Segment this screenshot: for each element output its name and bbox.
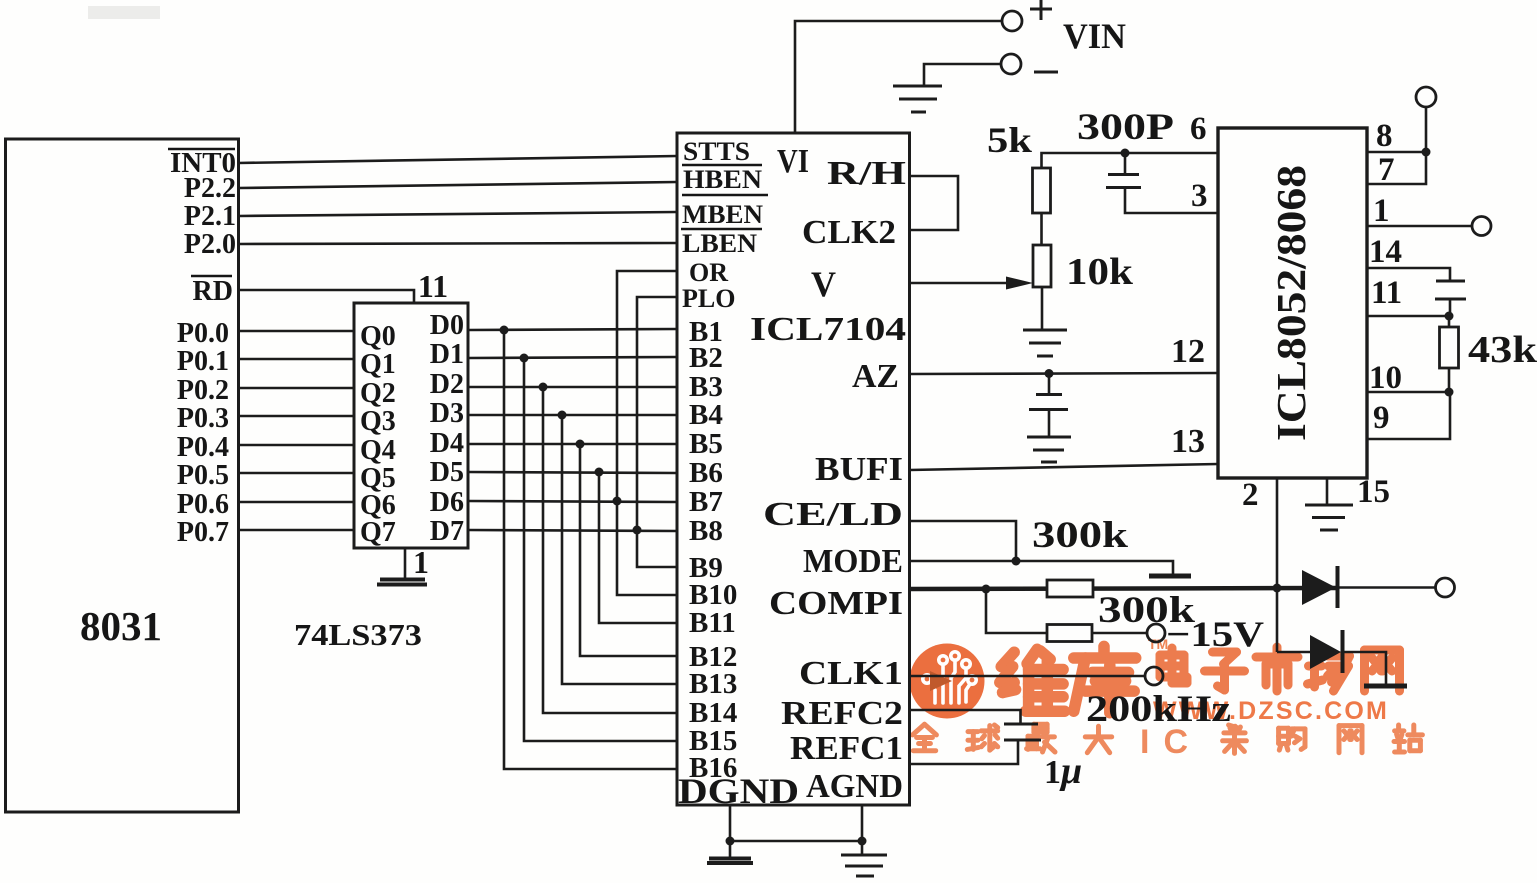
svg-text:RD: RD: [193, 276, 233, 307]
svg-text:D3: D3: [430, 398, 464, 429]
wire D2 to B14: [543, 387, 677, 713]
ground AZ cap: [1027, 436, 1071, 439]
wire CE/LD down to MODE: [910, 521, 1017, 561]
wire V to 10k wiper: [910, 282, 1013, 285]
wire D4 to B12: [580, 444, 677, 656]
svg-text:8031: 8031: [80, 603, 162, 649]
wire junction up to terminal: [1425, 107, 1428, 152]
svg-text:Q1: Q1: [360, 349, 396, 380]
wire COMPI heavy line: [910, 588, 1337, 589]
svg-text:P0.0: P0.0: [177, 318, 229, 349]
wire VIN- to ground: [924, 64, 1001, 85]
wire P2.2 to HBEN: [238, 182, 677, 188]
wire U2 pin9: [1367, 392, 1450, 439]
node D0 junction: [500, 326, 509, 335]
svg-text:13: 13: [1171, 423, 1205, 460]
svg-text:10: 10: [1369, 360, 1402, 396]
svg-text:74LS373: 74LS373: [294, 617, 422, 652]
svg-text:B5: B5: [689, 428, 723, 460]
IC 8031: [6, 139, 239, 812]
svg-text:−15V: −15V: [1166, 614, 1264, 654]
svg-text:Q7: Q7: [360, 517, 396, 548]
wire U2 pin8 to terminal: [1367, 151, 1426, 154]
node D4 junction: [576, 440, 585, 449]
node pin8 junction: [1422, 148, 1431, 157]
terminal pin1: [1472, 217, 1491, 236]
ground bar MODE: [1149, 574, 1191, 579]
wire D2 to B3: [468, 386, 677, 389]
svg-text:D7: D7: [430, 516, 464, 547]
svg-text:STTS: STTS: [683, 137, 750, 166]
svg-text:REFC1: REFC1: [790, 730, 903, 767]
capacitor 300P: [1124, 153, 1127, 174]
wire DGND down: [729, 805, 732, 841]
svg-text:BUFI: BUFI: [815, 451, 903, 488]
node CE/LD MODE junction: [1012, 557, 1021, 566]
node AGND junction: [858, 837, 867, 846]
svg-text:3: 3: [1191, 178, 1208, 214]
svg-text:COMPI: COMPI: [769, 585, 903, 622]
svg-text:B8: B8: [689, 515, 723, 547]
wire D1 to B2: [468, 357, 677, 358]
svg-text:REFC2: REFC2: [781, 695, 903, 732]
wire P0.1: [238, 358, 354, 361]
node AZ cap junction: [1045, 369, 1054, 378]
svg-text:Q0: Q0: [360, 321, 396, 352]
node D2 junction: [539, 383, 548, 392]
watermark slogan row: [913, 724, 937, 750]
svg-text:B13: B13: [689, 668, 737, 700]
wire PLO loop down through D7 to B9: [637, 297, 677, 567]
node pin2 junction on COMPI line: [1273, 584, 1282, 593]
svg-text:Q2: Q2: [360, 378, 396, 409]
watermark characters 电子市场网: [1160, 648, 1187, 683]
wire D2 to bar ground: [1343, 652, 1387, 684]
svg-text:B7: B7: [689, 486, 723, 518]
svg-text:MODE: MODE: [803, 543, 903, 580]
capacitor pin14: [1436, 280, 1465, 283]
svg-text:P0.5: P0.5: [177, 460, 229, 491]
svg-text:P0.3: P0.3: [177, 403, 229, 434]
svg-text:11: 11: [418, 268, 448, 304]
terminal top right: [1416, 87, 1436, 107]
svg-text:V: V: [811, 264, 836, 304]
resistor 300k on COMPI: [1047, 580, 1093, 597]
svg-text:P0.6: P0.6: [177, 489, 229, 520]
wire R/H loop to CLK2: [910, 176, 959, 230]
node D1 junction: [520, 354, 529, 363]
wire RD to 74LS373 pin11: [238, 290, 414, 303]
svg-text:CLK2: CLK2: [802, 214, 896, 251]
svg-text:1: 1: [1373, 193, 1390, 229]
watermark logo arrow: [930, 671, 952, 691]
wire DGND to AGND: [730, 840, 862, 843]
watermark logo circle: [910, 644, 985, 719]
svg-text:AGND: AGND: [806, 768, 903, 805]
wire REFC2 to cap 1u: [910, 710, 1021, 723]
svg-text:ICL7104: ICL7104: [750, 311, 906, 348]
wiper arrow: [1006, 277, 1033, 290]
node D6 junction: [613, 497, 622, 506]
wire U2 pin7: [1367, 152, 1426, 184]
svg-text:43k: 43k: [1468, 329, 1537, 371]
node D5 junction: [595, 468, 604, 477]
resistor 10k: [1033, 245, 1051, 287]
wire P0.3: [238, 415, 354, 418]
svg-text:DGND: DGND: [678, 771, 799, 811]
node D3 junction: [558, 411, 567, 420]
node pin11 junction: [1445, 312, 1454, 321]
svg-text:MBEN: MBEN: [682, 200, 763, 229]
resistor 5k: [1033, 168, 1051, 213]
wire COMPI to -15V resistor: [986, 589, 1047, 633]
wire U2 pin14 to cap: [1367, 268, 1450, 280]
wire AGND down: [861, 805, 864, 855]
svg-text:CE/LD: CE/LD: [763, 496, 903, 533]
wire REFC1 to cap 1u: [910, 741, 1019, 764]
svg-text:LBEN: LBEN: [682, 229, 757, 258]
resistor 300k to -15V: [1047, 625, 1092, 642]
svg-text:B6: B6: [689, 457, 723, 489]
svg-text:P0.7: P0.7: [177, 517, 229, 548]
wire P0.7: [238, 529, 354, 532]
wire P2.0 to LBEN: [238, 243, 677, 244]
wire U2 pin1 to terminal: [1367, 225, 1472, 228]
wire 300P to U2 pin3: [1125, 188, 1218, 214]
wire 5k to 10k: [1040, 213, 1043, 245]
svg-text:10k: 10k: [1066, 251, 1134, 293]
wire 74LS373 pin1 to ground: [404, 548, 407, 579]
ground bar D2: [1364, 684, 1407, 689]
svg-text:B2: B2: [689, 342, 723, 374]
svg-text:1μ: 1μ: [1044, 750, 1082, 792]
svg-text:AZ: AZ: [852, 358, 899, 395]
svg-text:D2: D2: [430, 369, 464, 400]
wire VI to VIN+ terminal: [795, 21, 1002, 133]
wire to -15V terminal: [1092, 632, 1147, 635]
wire D5 to B11: [599, 472, 677, 623]
svg-text:ICL8052/8068: ICL8052/8068: [1268, 165, 1314, 441]
svg-text:P2.0: P2.0: [184, 229, 236, 260]
IC U2 ICL8052/8068: [1218, 128, 1367, 478]
terminal 200kHz: [1145, 667, 1163, 685]
ground 10k: [1023, 329, 1067, 332]
svg-text:D4: D4: [430, 428, 464, 459]
IC U1 ICL7104: [677, 133, 910, 805]
svg-text:HBEN: HBEN: [683, 165, 762, 194]
wire P0.5: [238, 472, 354, 475]
svg-text:VIN: VIN: [1063, 16, 1126, 56]
svg-text:B4: B4: [689, 399, 723, 431]
svg-text:8: 8: [1376, 118, 1393, 154]
capacitor 1u: [1004, 723, 1038, 726]
ground pin15: [1305, 504, 1353, 507]
terminal VIN-: [1001, 54, 1021, 74]
resistor 43k: [1448, 316, 1451, 327]
svg-text:300P: 300P: [1077, 107, 1174, 148]
terminal output: [1436, 578, 1455, 597]
svg-text:OR: OR: [689, 258, 728, 287]
svg-text:200kHz: 200kHz: [1086, 689, 1231, 730]
wire OR loop down through D6 to B10: [617, 271, 677, 595]
terminal VIN+: [1002, 11, 1022, 31]
svg-text:6: 6: [1190, 111, 1207, 147]
wire P0.2: [238, 387, 354, 390]
svg-text:14: 14: [1369, 234, 1402, 270]
wire D1 to output terminal: [1338, 586, 1437, 589]
svg-text:P2.2: P2.2: [184, 173, 236, 204]
svg-text:VI: VI: [777, 143, 809, 180]
wire D3 to B13: [562, 415, 677, 684]
wire D1 to B15: [524, 358, 677, 741]
svg-text:7: 7: [1378, 152, 1395, 188]
node D7 junction: [633, 526, 642, 535]
wire INT0 to STTS: [238, 156, 677, 163]
wire AZ to U2 pin12: [910, 373, 1219, 374]
wire 10k to ground: [1041, 287, 1044, 329]
wire D3 to B4: [468, 414, 677, 417]
wire D0 to B16: [504, 330, 677, 769]
watermark big characters 维库: [1000, 649, 1065, 711]
svg-text:R/H: R/H: [827, 155, 906, 192]
wire D4 to B5: [468, 443, 677, 446]
wire BUFI to U2 pin13: [910, 464, 1219, 470]
svg-text:P0.4: P0.4: [177, 432, 229, 463]
ground AGND: [841, 854, 887, 857]
wire D6 to B7: [468, 501, 677, 502]
wire D0 to B1: [468, 329, 677, 330]
wire CLK1 to 200kHz terminal: [910, 675, 1146, 678]
svg-text:15: 15: [1357, 474, 1390, 510]
minus sign: [1034, 71, 1058, 74]
scan artifact top-left: [88, 6, 160, 19]
svg-text:5k: 5k: [987, 120, 1032, 160]
svg-text:P2.1: P2.1: [184, 201, 236, 232]
svg-text:D6: D6: [430, 487, 464, 518]
ground DGND bar: [729, 841, 732, 858]
wire P0.4: [238, 444, 354, 447]
svg-text:P0.2: P0.2: [177, 375, 229, 406]
wire P0.0: [238, 330, 354, 333]
diode D1: [1302, 570, 1336, 605]
svg-text:12: 12: [1171, 333, 1205, 370]
svg-text:11: 11: [1371, 275, 1402, 311]
wire D5 to B6: [468, 472, 677, 473]
wire U2 pin15 ground: [1326, 478, 1329, 504]
svg-text:D1: D1: [430, 339, 464, 370]
svg-text:D5: D5: [430, 457, 464, 488]
wire U2 pin2 down: [1276, 478, 1279, 652]
node pin10 junction: [1445, 388, 1454, 397]
svg-text:9: 9: [1373, 400, 1390, 436]
diode D2: [1277, 651, 1310, 654]
node DGND junction: [726, 837, 735, 846]
plus sign: [1030, 8, 1052, 11]
wire P0.6: [238, 501, 354, 504]
node 300P junction: [1121, 149, 1130, 158]
svg-text:Q4: Q4: [360, 435, 396, 466]
wire 5k top to U2 pin6: [1042, 153, 1219, 168]
svg-text:2: 2: [1242, 477, 1259, 513]
svg-text:300k: 300k: [1032, 515, 1129, 556]
svg-text:CLK1: CLK1: [799, 655, 903, 692]
svg-text:Q3: Q3: [360, 406, 396, 437]
wire P2.1 to MBEN: [238, 212, 677, 216]
svg-text:PLO: PLO: [682, 284, 735, 313]
svg-text:D0: D0: [430, 310, 464, 341]
wire D7 to B8: [468, 530, 677, 531]
IC 74LS373: [354, 303, 468, 548]
ground VIN: [893, 85, 942, 88]
wire MODE to 300k bar: [910, 561, 1174, 574]
terminal -15V: [1147, 624, 1165, 642]
wire U2 pin10: [1367, 391, 1449, 394]
wire U2 pin11: [1367, 315, 1450, 318]
svg-text:P0.1: P0.1: [177, 346, 229, 377]
ground 74LS373: [380, 578, 425, 582]
svg-text:1: 1: [413, 544, 429, 580]
node COMPI junction: [982, 585, 991, 594]
svg-text:B11: B11: [689, 607, 736, 639]
capacitor AZ: [1048, 373, 1051, 394]
